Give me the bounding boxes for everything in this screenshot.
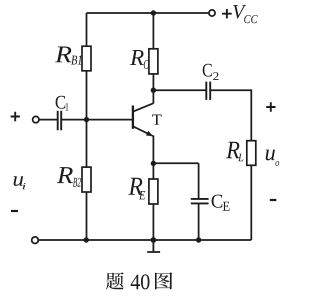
label RB2 B2 xyxy=(73,178,81,187)
resistor RC xyxy=(149,49,158,74)
label RC C xyxy=(144,60,149,69)
label RB1 B1 xyxy=(71,56,81,65)
node junction emitter xyxy=(151,161,156,166)
wire collector node to C2 xyxy=(153,89,206,91)
node junction base xyxy=(84,117,89,122)
minus sign output xyxy=(270,199,277,201)
label uo u xyxy=(266,150,275,161)
transistor T base bar xyxy=(132,106,134,129)
terminal input bottom xyxy=(32,237,39,244)
label RC R xyxy=(130,50,144,65)
wire input terminal to C1 xyxy=(39,119,57,121)
wire C2 to output corner xyxy=(211,90,252,141)
plus sign input xyxy=(11,112,20,121)
label RL L xyxy=(238,154,243,162)
wire CE top lead xyxy=(198,163,200,198)
wire RB1 bottom to RB2 top through base node xyxy=(86,71,88,167)
plus sign output xyxy=(266,102,275,111)
label RB2 R xyxy=(57,167,73,183)
transistor T emitter arrow xyxy=(146,131,153,136)
wire top VCC rail xyxy=(87,12,209,14)
label T xyxy=(152,115,162,125)
label ui i xyxy=(23,183,26,189)
label RL R xyxy=(226,142,240,158)
caption char 图 xyxy=(155,272,173,289)
label CE C xyxy=(212,195,223,208)
ground xyxy=(147,240,160,252)
node junction RB2 bottom xyxy=(84,237,89,242)
label uo o xyxy=(275,161,279,166)
minus sign input xyxy=(11,210,18,212)
caption char 题 xyxy=(106,272,124,289)
wire RL bottom to ground rail xyxy=(250,165,252,240)
label C2 2 xyxy=(213,72,218,80)
wire CE bottom lead xyxy=(198,204,200,240)
label ui u xyxy=(14,176,24,186)
wire RB2 bottom to ground rail xyxy=(86,192,88,240)
node junction CE bottom xyxy=(196,237,201,242)
capacitor C2 xyxy=(206,82,210,100)
wire RE top lead xyxy=(152,164,154,179)
transistor T emitter stroke xyxy=(134,127,153,136)
node junction collector xyxy=(151,88,156,93)
wire bottom ground rail xyxy=(38,239,251,241)
label CE E xyxy=(223,202,230,211)
wire RC bottom through collector node to elbow xyxy=(152,74,154,104)
wire left bias line top segment xyxy=(86,13,88,46)
transistor T collector stroke xyxy=(134,103,154,111)
label C2 C xyxy=(203,64,212,77)
resistor RL xyxy=(247,141,256,166)
node junction RE bottom xyxy=(151,237,157,243)
wire emitter vertical xyxy=(152,135,154,164)
caption 40 xyxy=(131,274,150,289)
terminal input top xyxy=(33,116,39,122)
label RB1 R xyxy=(55,47,72,63)
resistor RB1 xyxy=(82,46,91,71)
wire emitter node to CE xyxy=(153,162,198,164)
capacitor CE xyxy=(191,199,209,204)
wire RE bottom lead xyxy=(152,204,154,240)
resistor RB2 xyxy=(82,167,91,192)
label VCC CC xyxy=(244,15,257,23)
wire base xyxy=(62,119,133,121)
label RE R xyxy=(128,178,142,195)
node junction top rail xyxy=(151,10,156,15)
label RE E xyxy=(139,191,146,199)
capacitor C1 xyxy=(58,111,62,131)
resistor RE xyxy=(149,179,158,204)
plus sign VCC xyxy=(222,9,232,18)
label C1 1 xyxy=(66,103,69,111)
wire RC top lead xyxy=(152,13,154,49)
label VCC V xyxy=(233,5,246,19)
terminal VCC xyxy=(209,10,215,16)
label C1 C xyxy=(56,96,66,109)
